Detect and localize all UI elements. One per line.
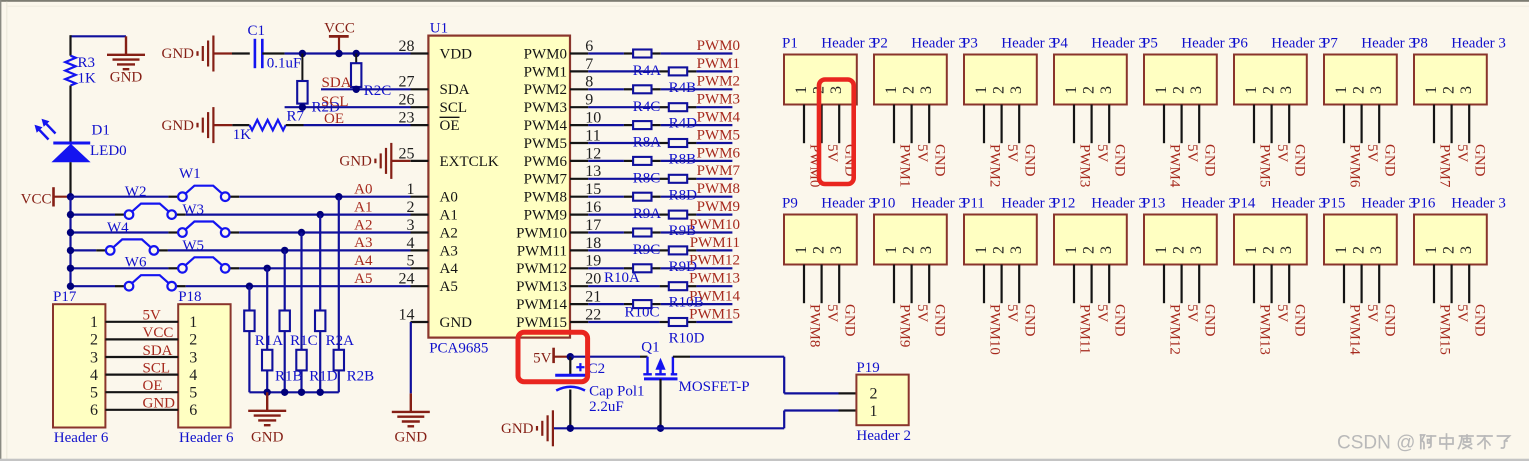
svg-text:PWM11: PWM11 <box>690 235 740 251</box>
svg-text:3: 3 <box>828 86 845 94</box>
node bus junction <box>67 247 74 254</box>
pin 13 PWM7 <box>570 178 588 180</box>
pin 1 A0 <box>411 196 429 198</box>
svg-text:Header 3: Header 3 <box>1001 36 1056 52</box>
resistor R8C <box>633 157 651 165</box>
resistor R9A <box>633 193 651 201</box>
svg-text:SCL: SCL <box>143 360 171 376</box>
window border left <box>0 0 1 463</box>
wire <box>286 124 304 126</box>
svg-text:W2: W2 <box>125 184 147 200</box>
svg-text:GND: GND <box>1382 304 1398 337</box>
wire <box>1450 265 1452 304</box>
svg-text:1: 1 <box>1333 246 1350 254</box>
svg-text:PWM4: PWM4 <box>524 118 568 134</box>
svg-text:R4B: R4B <box>669 80 697 96</box>
svg-text:1: 1 <box>1333 86 1350 94</box>
svg-text:1: 1 <box>1423 246 1440 254</box>
svg-text:P15: P15 <box>1322 196 1345 212</box>
wire <box>893 265 895 304</box>
connector P18 Header 6 <box>178 304 230 427</box>
wire <box>1018 265 1020 304</box>
svg-text:GND: GND <box>162 118 195 134</box>
svg-text:R10A: R10A <box>604 270 640 286</box>
resistor R1A <box>248 286 250 310</box>
svg-text:Header 2: Header 2 <box>856 428 911 444</box>
resistor R2C <box>355 54 357 64</box>
svg-text:6: 6 <box>189 402 197 419</box>
svg-text:9: 9 <box>585 92 593 109</box>
svg-text:GND: GND <box>1382 144 1398 177</box>
resistor R7 1K <box>250 120 286 130</box>
wire <box>1000 265 1002 304</box>
svg-text:2: 2 <box>1080 246 1097 254</box>
node drop junction <box>298 229 305 236</box>
ground GND (top left) <box>107 36 145 69</box>
pin 27 SDA <box>411 88 429 90</box>
pin 10 PWM4 <box>570 124 588 126</box>
power ground GND (EXTCLK) <box>375 143 391 179</box>
svg-text:P14: P14 <box>1232 196 1256 212</box>
annotation red box (5V / C2) <box>518 332 588 381</box>
wire <box>820 265 822 304</box>
wire <box>1180 105 1182 144</box>
svg-text:PWM12: PWM12 <box>689 253 740 269</box>
svg-text:GND: GND <box>1022 144 1038 177</box>
wire <box>249 391 338 393</box>
resistor R9C <box>633 229 651 237</box>
svg-text:1: 1 <box>793 86 810 94</box>
pin 20 PWM13 <box>570 285 588 287</box>
wire <box>588 106 659 108</box>
pin 21 PWM14 <box>570 303 588 305</box>
svg-text:PWM10: PWM10 <box>516 225 567 241</box>
resistor R9D <box>669 246 687 254</box>
svg-text:A0: A0 <box>354 182 372 198</box>
wire <box>105 338 178 340</box>
svg-text:GND: GND <box>1112 304 1128 337</box>
svg-text:18: 18 <box>585 235 601 252</box>
wire <box>893 105 895 144</box>
svg-text:GND: GND <box>339 154 372 170</box>
svg-text:2: 2 <box>1440 246 1457 254</box>
wire <box>1288 105 1290 144</box>
svg-text:A0: A0 <box>440 190 458 206</box>
pin 19 PWM12 <box>570 267 588 269</box>
svg-text:P16: P16 <box>1412 196 1436 212</box>
svg-text:5V: 5V <box>1274 304 1290 323</box>
svg-text:PWM12: PWM12 <box>516 261 567 277</box>
node rail junction <box>298 389 305 396</box>
svg-text:GND: GND <box>143 396 176 412</box>
svg-text:16: 16 <box>585 199 601 216</box>
svg-text:SDA: SDA <box>322 75 352 91</box>
wire <box>391 160 410 162</box>
svg-text:22: 22 <box>585 306 601 323</box>
svg-text:1: 1 <box>90 314 98 331</box>
wire <box>820 105 822 144</box>
wire <box>71 231 169 233</box>
svg-text:5V: 5V <box>824 304 840 323</box>
pin 6 PWM0 <box>570 52 588 54</box>
svg-text:GND: GND <box>162 46 195 62</box>
svg-text:A5: A5 <box>354 271 372 287</box>
connector P10 Header 3 <box>874 215 947 265</box>
pin 28 VDD <box>411 52 429 54</box>
svg-text:W4: W4 <box>107 220 129 236</box>
wire <box>71 285 116 287</box>
resistor R2B <box>338 197 340 350</box>
svg-text:SDA: SDA <box>440 82 470 98</box>
watermark hanzi c <box>1459 435 1474 449</box>
svg-text:PWM15: PWM15 <box>689 306 740 322</box>
wire <box>71 214 116 216</box>
connector P13 Header 3 <box>1144 215 1217 265</box>
svg-text:2: 2 <box>1350 246 1367 254</box>
svg-text:W1: W1 <box>179 166 201 182</box>
svg-text:P17: P17 <box>53 289 77 305</box>
wire <box>1253 105 1255 144</box>
sheet inner border <box>6 2 8 459</box>
node gate junction <box>657 425 664 432</box>
svg-text:P5: P5 <box>1142 36 1158 52</box>
svg-text:LED0: LED0 <box>90 143 127 159</box>
svg-text:3: 3 <box>189 349 197 366</box>
svg-text:25: 25 <box>399 145 415 162</box>
wire <box>1360 105 1362 144</box>
wire <box>321 88 411 90</box>
svg-text:PWM7: PWM7 <box>524 172 568 188</box>
svg-text:P1: P1 <box>782 36 798 52</box>
svg-text:PWM5: PWM5 <box>1257 144 1273 187</box>
svg-text:Header 3: Header 3 <box>821 36 876 52</box>
capacitor C2 Cap Pol1 2.2uF <box>569 357 571 376</box>
svg-text:GND: GND <box>1112 144 1128 177</box>
svg-text:C2: C2 <box>588 361 606 377</box>
svg-text:PWM13: PWM13 <box>1257 304 1273 355</box>
wire <box>1360 265 1362 304</box>
svg-text:14: 14 <box>399 306 415 323</box>
wire <box>1378 265 1380 304</box>
svg-text:1: 1 <box>870 403 878 420</box>
resistor R2D <box>301 54 303 82</box>
svg-text:R8D: R8D <box>669 187 698 203</box>
node 5V junction <box>567 353 574 360</box>
svg-text:C1: C1 <box>248 23 266 39</box>
wire <box>1198 265 1200 304</box>
node bus junction <box>67 229 74 236</box>
svg-text:GND: GND <box>932 144 948 177</box>
svg-text:PWM9: PWM9 <box>697 199 740 215</box>
svg-text:PWM7: PWM7 <box>697 163 741 179</box>
svg-text:A3: A3 <box>354 235 372 251</box>
svg-text:A2: A2 <box>440 225 458 241</box>
jumper W2 <box>125 204 176 219</box>
connector P5 Header 3 <box>1144 55 1217 105</box>
svg-text:Header 3: Header 3 <box>1451 36 1506 52</box>
svg-text:PWM0: PWM0 <box>697 38 740 54</box>
svg-text:27: 27 <box>399 74 415 91</box>
svg-text:PWM6: PWM6 <box>1347 144 1363 188</box>
svg-text:PWM1: PWM1 <box>897 144 913 187</box>
svg-text:A1: A1 <box>440 208 458 224</box>
svg-text:Q1: Q1 <box>641 340 659 356</box>
svg-text:P9: P9 <box>782 196 798 212</box>
svg-text:GND: GND <box>1292 144 1308 177</box>
svg-text:VDD: VDD <box>440 46 473 62</box>
wire <box>588 231 624 233</box>
svg-text:R2C: R2C <box>364 83 392 99</box>
svg-text:2: 2 <box>90 332 98 349</box>
svg-text:5V: 5V <box>1364 304 1380 323</box>
svg-text:A4: A4 <box>440 261 459 277</box>
svg-text:VCC: VCC <box>143 325 174 341</box>
wire <box>1433 265 1435 304</box>
svg-text:Cap Pol1: Cap Pol1 <box>589 383 644 399</box>
svg-text:A1: A1 <box>354 199 372 215</box>
svg-text:28: 28 <box>399 38 415 55</box>
svg-text:P18: P18 <box>178 289 201 305</box>
wire <box>588 70 659 72</box>
wire <box>570 356 640 358</box>
svg-text:1: 1 <box>1243 86 1260 94</box>
svg-text:Header 3: Header 3 <box>1001 196 1056 212</box>
resistor R10C <box>633 300 651 308</box>
svg-text:R2B: R2B <box>347 368 375 384</box>
wire <box>1073 265 1075 304</box>
svg-text:GND: GND <box>1202 144 1218 177</box>
watermark hanzi b <box>1440 434 1453 449</box>
wire <box>213 52 232 54</box>
svg-text:PWM13: PWM13 <box>689 271 740 287</box>
pin 11 PWM5 <box>570 142 588 144</box>
svg-text:2: 2 <box>810 246 827 254</box>
node rail junction <box>281 389 288 396</box>
svg-text:2.2uF: 2.2uF <box>589 399 624 415</box>
svg-text:1: 1 <box>1063 246 1080 254</box>
svg-text:A2: A2 <box>354 217 372 233</box>
wire <box>1163 105 1165 144</box>
wire <box>1163 265 1165 304</box>
wire <box>1253 265 1255 304</box>
svg-text:PWM9: PWM9 <box>524 208 567 224</box>
svg-text:PWM8: PWM8 <box>697 181 740 197</box>
resistor R10D <box>669 318 687 326</box>
svg-text:4: 4 <box>189 367 197 384</box>
svg-text:P13: P13 <box>1142 196 1165 212</box>
watermark hanzi a <box>1421 435 1436 449</box>
svg-text:Header 3: Header 3 <box>1271 196 1326 212</box>
svg-text:R10C: R10C <box>625 305 660 321</box>
svg-text:11: 11 <box>585 127 600 144</box>
svg-text:5V: 5V <box>1004 304 1020 323</box>
wire <box>588 321 659 323</box>
pin 26 SCL <box>411 106 429 108</box>
pin 4 A3 <box>411 249 429 251</box>
svg-text:2: 2 <box>1170 246 1187 254</box>
wire <box>783 411 785 429</box>
wire <box>1468 105 1470 144</box>
ground GND (resistor network) <box>248 392 286 425</box>
wire <box>910 105 912 144</box>
svg-text:GND: GND <box>842 304 858 337</box>
svg-text:2: 2 <box>407 199 415 216</box>
svg-text:24: 24 <box>399 271 415 288</box>
svg-text:Header 3: Header 3 <box>1451 196 1506 212</box>
node drop junction <box>264 265 271 272</box>
svg-text:GND: GND <box>501 421 534 437</box>
wire <box>554 427 785 429</box>
wire <box>1468 265 1470 304</box>
svg-text:PWM7: PWM7 <box>1437 144 1453 188</box>
svg-text:VCC: VCC <box>21 191 52 207</box>
svg-text:R7: R7 <box>287 108 305 124</box>
node drop junction <box>281 247 288 254</box>
svg-text:2: 2 <box>900 246 917 254</box>
wire <box>1378 105 1380 144</box>
svg-text:PWM11: PWM11 <box>517 243 567 259</box>
jumper W6 <box>125 275 176 290</box>
svg-text:EXTCLK: EXTCLK <box>440 154 499 170</box>
wire <box>69 197 71 286</box>
svg-text:1: 1 <box>973 246 990 254</box>
footer gray line <box>0 459 1529 461</box>
svg-text:PWM3: PWM3 <box>1077 144 1093 187</box>
svg-text:3: 3 <box>918 246 935 254</box>
svg-text:5V: 5V <box>824 144 840 163</box>
wire <box>803 265 805 304</box>
capacitor C1 0.1uF <box>254 39 257 68</box>
svg-text:PWM14: PWM14 <box>516 297 567 313</box>
svg-text:13: 13 <box>585 163 601 180</box>
svg-text:CSDN @: CSDN @ <box>1337 433 1415 454</box>
svg-text:5V: 5V <box>1364 144 1380 163</box>
resistor R10A <box>633 264 651 272</box>
power ground GND (C1 left) <box>198 36 214 72</box>
wire <box>1270 265 1272 304</box>
node drop junction <box>317 211 324 218</box>
svg-text:5V: 5V <box>1094 304 1110 323</box>
wire <box>410 322 412 393</box>
pin 5 A4 <box>411 267 429 269</box>
svg-text:R8B: R8B <box>669 152 697 168</box>
wire <box>588 214 659 216</box>
svg-text:OE: OE <box>143 378 163 394</box>
svg-text:3: 3 <box>1278 246 1295 254</box>
resistor R10B <box>669 282 687 290</box>
svg-text:VCC: VCC <box>324 20 355 36</box>
svg-text:3: 3 <box>918 86 935 94</box>
svg-text:10: 10 <box>585 110 601 127</box>
svg-text:SCL: SCL <box>321 94 349 110</box>
jumper W3 <box>178 222 229 237</box>
jumper W5 <box>178 257 229 272</box>
svg-text:Header 3: Header 3 <box>1181 36 1236 52</box>
watermark hanzi d <box>1478 436 1493 449</box>
wire <box>838 265 840 304</box>
node SCL junction <box>299 104 306 111</box>
resistor R4B <box>669 67 687 75</box>
wire <box>1090 105 1092 144</box>
svg-text:PWM2: PWM2 <box>697 74 740 90</box>
pin 8 PWM2 <box>570 88 588 90</box>
pin 16 PWM9 <box>570 214 588 216</box>
window border top <box>0 0 1529 2</box>
wire <box>262 52 284 54</box>
svg-text:1: 1 <box>793 246 810 254</box>
svg-text:6: 6 <box>585 38 593 55</box>
svg-text:GND: GND <box>440 315 473 331</box>
connector P15 Header 3 <box>1324 215 1397 265</box>
svg-text:1: 1 <box>1153 246 1170 254</box>
svg-text:D1: D1 <box>92 123 110 139</box>
wire <box>285 106 411 108</box>
svg-text:PWM13: PWM13 <box>516 279 567 295</box>
svg-text:W5: W5 <box>182 238 204 254</box>
svg-text:5V: 5V <box>1184 144 1200 163</box>
wire <box>1090 265 1092 304</box>
svg-text:1: 1 <box>1243 246 1260 254</box>
svg-text:P7: P7 <box>1322 36 1338 52</box>
ground GND (under U1) <box>392 393 430 426</box>
svg-text:P10: P10 <box>872 196 895 212</box>
svg-text:3: 3 <box>1458 246 1475 254</box>
svg-text:6: 6 <box>90 402 98 419</box>
connector P9 Header 3 <box>784 215 857 265</box>
svg-text:P4: P4 <box>1052 36 1068 52</box>
wire <box>1073 105 1075 144</box>
node bus junction <box>67 265 74 272</box>
svg-text:PWM1: PWM1 <box>697 56 740 72</box>
svg-text:2: 2 <box>1440 86 1457 94</box>
wire <box>105 391 178 393</box>
connector P8 Header 3 <box>1414 55 1487 105</box>
wire <box>588 124 624 126</box>
svg-text:OE: OE <box>324 111 344 127</box>
wire <box>588 249 659 251</box>
svg-text:PWM3: PWM3 <box>524 100 567 116</box>
svg-text:Header 3: Header 3 <box>1361 36 1416 52</box>
svg-text:3: 3 <box>1368 246 1385 254</box>
svg-text:MOSFET-P: MOSFET-P <box>679 379 750 395</box>
wire <box>1198 105 1200 144</box>
svg-text:PWM14: PWM14 <box>689 289 740 305</box>
pin 23 OE <box>411 124 429 126</box>
svg-text:PWM9: PWM9 <box>897 304 913 347</box>
svg-text:PWM5: PWM5 <box>697 127 740 143</box>
pin 9 PWM3 <box>570 106 588 108</box>
node drop junction <box>335 193 342 200</box>
connector P4 Header 3 <box>1054 55 1127 105</box>
wire <box>588 303 624 305</box>
wire <box>673 356 690 358</box>
svg-text:OE: OE <box>440 118 460 134</box>
wire <box>838 105 840 144</box>
svg-text:GND: GND <box>1202 304 1218 337</box>
svg-text:3: 3 <box>1008 86 1025 94</box>
svg-text:1: 1 <box>883 86 900 94</box>
connector P6 Header 3 <box>1234 55 1307 105</box>
pin 25 EXTCLK <box>411 160 429 162</box>
resistor R8D <box>669 175 687 183</box>
resistor R4A <box>633 50 651 58</box>
wire <box>1343 265 1345 304</box>
pin 14 GND <box>411 321 429 323</box>
svg-text:3: 3 <box>1008 246 1025 254</box>
svg-text:PWM3: PWM3 <box>697 92 740 108</box>
svg-text:12: 12 <box>585 145 601 162</box>
pin 24 A5 <box>411 285 429 287</box>
